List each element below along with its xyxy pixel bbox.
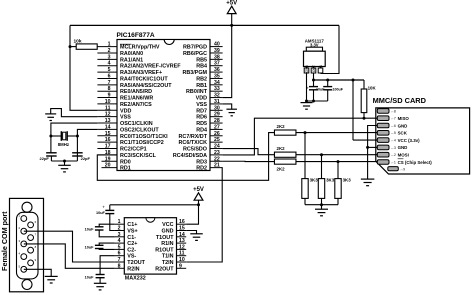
svg-text:RC3/SCK/SCL: RC3/SCK/SCL (120, 153, 157, 159)
svg-text:RD1: RD1 (120, 166, 131, 172)
svg-text:35: 35 (214, 73, 220, 79)
svg-text:CS (Chip Select): CS (Chip Select) (398, 160, 433, 165)
svg-text:MISO: MISO (398, 116, 410, 121)
svg-text:PIC16F877A: PIC16F877A (117, 32, 155, 39)
svg-text:100uF: 100uF (333, 87, 344, 91)
svg-text:RA4/T0CKI/C1OUT: RA4/T0CKI/C1OUT (120, 76, 168, 82)
svg-text:MMC/SD CARD: MMC/SD CARD (373, 96, 427, 105)
svg-text:37: 37 (214, 61, 220, 67)
svg-text:RB1: RB1 (196, 83, 207, 89)
svg-text:RC6/TX/CK: RC6/TX/CK (179, 140, 208, 146)
svg-text:RA5/AN4/SS/C2OUT: RA5/AN4/SS/C2OUT (120, 83, 172, 89)
svg-text:5: 5 (118, 244, 121, 250)
svg-text:VS-: VS- (127, 254, 136, 260)
svg-text:RD5: RD5 (196, 121, 207, 127)
svg-text:RC1/T1OSI/CCP2: RC1/T1OSI/CCP2 (120, 140, 164, 146)
svg-text:RB0/INT: RB0/INT (186, 89, 208, 95)
svg-text:VCC (3.3v): VCC (3.3v) (398, 138, 420, 143)
svg-text:22pF: 22pF (40, 156, 50, 161)
svg-text:8: 8 (118, 263, 121, 269)
svg-text:5: 5 (108, 67, 111, 73)
svg-text:VSS: VSS (196, 102, 207, 108)
svg-text:↔1: ↔1 (391, 160, 396, 164)
svg-text:↔5: ↔5 (391, 131, 396, 135)
svg-text:RB7/PGD: RB7/PGD (183, 45, 207, 51)
svg-text:VSS: VSS (120, 115, 131, 121)
svg-text:10uF: 10uF (85, 275, 95, 279)
svg-text:36: 36 (214, 67, 220, 73)
svg-text:VCC: VCC (162, 222, 173, 228)
svg-text:14: 14 (105, 124, 111, 130)
svg-text:34: 34 (214, 80, 220, 86)
svg-text:C1+: C1+ (127, 222, 137, 228)
svg-text:RB4: RB4 (196, 64, 207, 70)
svg-text:↔6: ↔6 (391, 124, 396, 128)
svg-text:10uF: 10uF (85, 246, 95, 250)
svg-text:2K2: 2K2 (277, 167, 286, 172)
svg-text:16: 16 (179, 219, 185, 225)
svg-text:32: 32 (214, 93, 220, 99)
svg-text:15: 15 (105, 131, 111, 137)
svg-text:T2OUT: T2OUT (127, 260, 145, 266)
svg-text:VDD: VDD (196, 96, 207, 102)
svg-text:T2IN: T2IN (162, 260, 174, 266)
svg-text:11: 11 (105, 105, 111, 111)
svg-text:23: 23 (214, 150, 220, 156)
svg-text:7: 7 (108, 80, 111, 86)
svg-text:39: 39 (214, 48, 220, 54)
svg-text:11: 11 (179, 251, 185, 257)
svg-text:12: 12 (105, 112, 111, 118)
svg-text:3K3: 3K3 (326, 178, 335, 183)
svg-text:RD0: RD0 (120, 159, 131, 165)
svg-text:3K3: 3K3 (343, 178, 352, 183)
svg-text:22: 22 (214, 156, 220, 162)
svg-text:31: 31 (214, 99, 220, 105)
svg-text:24: 24 (214, 144, 220, 150)
svg-text:8: 8 (108, 86, 111, 92)
svg-text:6: 6 (108, 73, 111, 79)
svg-text:10uF: 10uF (85, 227, 95, 231)
svg-text:C2+: C2+ (127, 241, 137, 247)
svg-text:↔4: ↔4 (391, 139, 396, 143)
svg-text:RD6: RD6 (196, 115, 207, 121)
svg-text:13: 13 (105, 118, 111, 124)
svg-text:10uF: 10uF (96, 211, 106, 215)
svg-text:3: 3 (118, 232, 121, 238)
svg-text:C2-: C2- (127, 247, 136, 253)
svg-text:2K2: 2K2 (277, 124, 286, 129)
svg-text:T1OUT: T1OUT (156, 235, 174, 241)
svg-text:MAX232: MAX232 (125, 276, 146, 282)
svg-text:RE0/AN5/RD: RE0/AN5/RD (120, 89, 152, 95)
svg-text:8MHz: 8MHz (58, 142, 69, 147)
svg-text:RC4/SDI/SDA: RC4/SDI/SDA (173, 153, 207, 159)
svg-text:RD2: RD2 (196, 166, 207, 172)
svg-text:RB3/PGM: RB3/PGM (182, 70, 207, 76)
svg-text:RD7: RD7 (196, 108, 207, 114)
svg-text:T1IN: T1IN (162, 254, 174, 260)
svg-text:29: 29 (214, 112, 220, 118)
svg-text:VDD: VDD (120, 108, 131, 114)
svg-text:10K: 10K (368, 85, 377, 90)
svg-text:↔3: ↔3 (391, 146, 396, 150)
svg-text:GND: GND (398, 145, 408, 150)
svg-text:14: 14 (179, 232, 185, 238)
svg-text:R1OUT: R1OUT (155, 247, 174, 253)
svg-text:3: 3 (108, 54, 111, 60)
svg-text:RA2/AN2/VREF-/CVREF: RA2/AN2/VREF-/CVREF (120, 64, 181, 70)
svg-text:GND: GND (398, 123, 408, 128)
svg-text:RA1/AN1: RA1/AN1 (120, 57, 143, 63)
svg-text:10k: 10k (74, 38, 82, 44)
svg-text:13: 13 (179, 238, 185, 244)
svg-text:25: 25 (214, 137, 220, 143)
svg-text:SCK: SCK (398, 131, 408, 136)
svg-text:3.3V: 3.3V (310, 43, 319, 48)
svg-text:RB5: RB5 (196, 57, 207, 63)
svg-text:RA0/AN0: RA0/AN0 (120, 51, 143, 57)
svg-text:IN: IN (319, 64, 323, 68)
svg-text:RD4: RD4 (196, 127, 207, 133)
svg-text:2: 2 (118, 226, 121, 232)
svg-text:MOSI: MOSI (398, 153, 409, 158)
svg-text:38: 38 (214, 54, 220, 60)
svg-text:C1-: C1- (127, 235, 136, 241)
svg-text:10: 10 (105, 99, 111, 105)
svg-text:GND: GND (305, 64, 309, 72)
svg-text:+: + (306, 86, 309, 91)
svg-text:1: 1 (108, 42, 111, 48)
svg-text:Female COM port: Female COM port (0, 211, 9, 271)
svg-text:20: 20 (105, 163, 111, 169)
svg-text:R2IN: R2IN (127, 266, 139, 272)
svg-text:22pF: 22pF (81, 156, 91, 161)
svg-text:27: 27 (214, 124, 220, 130)
svg-text:GND: GND (162, 229, 174, 235)
svg-text:↔9: ↔9 (400, 168, 405, 172)
svg-text:4: 4 (108, 61, 111, 67)
svg-text:6: 6 (118, 251, 121, 257)
svg-text:MCLR/Vpp/THV: MCLR/Vpp/THV (120, 45, 160, 51)
svg-text:3K3: 3K3 (310, 178, 319, 183)
svg-text:OSC2/CLKOUT: OSC2/CLKOUT (120, 127, 159, 133)
svg-text:RC2/CCP1: RC2/CCP1 (120, 147, 147, 153)
svg-text:RD3: RD3 (196, 159, 207, 165)
svg-text:26: 26 (214, 131, 220, 137)
svg-text:33: 33 (214, 86, 220, 92)
svg-text:RC7/RX/DT: RC7/RX/DT (179, 134, 208, 140)
svg-text:19: 19 (105, 156, 111, 162)
svg-text:VS+: VS+ (127, 229, 137, 235)
svg-text:RC5/SDO: RC5/SDO (183, 147, 207, 153)
svg-text:R1IN: R1IN (161, 241, 173, 247)
svg-text:17: 17 (105, 144, 111, 150)
svg-text:4: 4 (118, 238, 121, 244)
svg-text:2K2: 2K2 (277, 146, 286, 151)
svg-text:2: 2 (108, 48, 111, 54)
svg-text:21: 21 (214, 163, 220, 169)
svg-text:OSC1/CLKIN: OSC1/CLKIN (120, 121, 153, 127)
svg-text:↔8: ↔8 (391, 109, 396, 113)
svg-text:12: 12 (179, 244, 185, 250)
svg-text:OUT: OUT (312, 65, 316, 72)
svg-text:↔7: ↔7 (391, 117, 396, 121)
svg-text:15: 15 (179, 226, 185, 232)
svg-text:10: 10 (179, 257, 185, 263)
svg-text:RA3/AN3/VREF+: RA3/AN3/VREF+ (120, 70, 162, 76)
svg-text:40: 40 (214, 42, 220, 48)
svg-text:RC0/T1OSO/T1CKI: RC0/T1OSO/T1CKI (120, 134, 168, 140)
svg-text:30: 30 (214, 105, 220, 111)
svg-text:R2OUT: R2OUT (155, 266, 174, 272)
svg-text:RB2: RB2 (196, 76, 207, 82)
svg-text:16: 16 (105, 137, 111, 143)
svg-text:9: 9 (179, 263, 182, 269)
svg-text:9: 9 (108, 93, 111, 99)
svg-text:↔2: ↔2 (391, 153, 396, 157)
svg-text:+: + (102, 204, 105, 209)
svg-text:RE2/AN7/CS: RE2/AN7/CS (120, 102, 152, 108)
svg-text:7: 7 (118, 257, 121, 263)
svg-text:1: 1 (118, 219, 121, 225)
svg-text:28: 28 (214, 118, 220, 124)
svg-text:RB6/PGC: RB6/PGC (183, 51, 207, 57)
svg-text:RE1/AN6/WR: RE1/AN6/WR (120, 96, 153, 102)
